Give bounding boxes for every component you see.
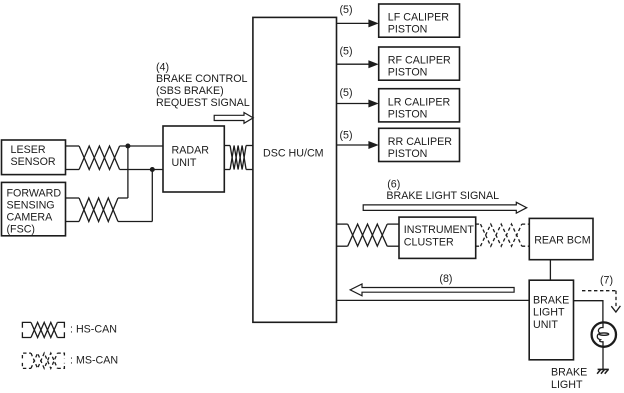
wire zigzag to cluster bottom stub: [387, 245, 399, 247]
svg-text:REAR BCM: REAR BCM: [534, 235, 591, 247]
twisted pair HS-CAN FSC line B: [79, 198, 118, 222]
arrow DSC to RF caliper: [337, 60, 379, 68]
twisted pair HS-CAN FSC line A: [79, 198, 118, 222]
twisted pair HS-CAN LESER SENSOR line B: [79, 146, 120, 170]
wire lamp to ground: [602, 346, 604, 369]
twisted pair MS-CAN cluster-rear BCM line B: [481, 224, 522, 246]
svg-text:(5): (5): [340, 87, 353, 99]
svg-text:PISTON: PISTON: [388, 67, 428, 79]
svg-text:LIGHT: LIGHT: [533, 307, 565, 319]
svg-text:RR CALIPER: RR CALIPER: [388, 136, 452, 148]
legend HS-CAN symbol: [22, 322, 64, 337]
arrow DSC to RR caliper: [337, 141, 379, 149]
wire vertical from junction 2 down to FSC bottom wire: [151, 170, 153, 222]
svg-text:CLUSTER: CLUSTER: [404, 237, 454, 249]
svg-text:(4): (4): [156, 62, 169, 74]
box LESER SENSOR: [2, 140, 66, 175]
svg-text:(SBS BRAKE): (SBS BRAKE): [156, 85, 224, 97]
svg-text:SENSING: SENSING: [7, 199, 55, 211]
wire DSC to instrument cluster bottom stub: [337, 245, 348, 247]
wire cluster to MS-CAN top stub (dashed): [476, 223, 481, 225]
wire vertical from junction 1 down to FSC top wire: [127, 146, 129, 198]
svg-text:REQUEST SIGNAL: REQUEST SIGNAL: [156, 97, 250, 109]
wire DSC to instrument cluster top stub: [337, 223, 348, 225]
wire FSC bottom to junction 2 vertical: [118, 221, 152, 223]
dashed wire (7) horizontal: [582, 290, 616, 292]
svg-text:(5): (5): [340, 129, 353, 141]
svg-text:BRAKE: BRAKE: [533, 294, 569, 306]
svg-text:CAMERA: CAMERA: [7, 212, 54, 224]
wire cluster to MS-CAN bottom stub (dashed): [476, 245, 481, 247]
svg-text:(8): (8): [439, 273, 452, 285]
dashed wire (7) vertical: [615, 291, 617, 307]
svg-text:PISTON: PISTON: [388, 24, 428, 36]
wire zigzag to DSC top stub: [246, 145, 253, 147]
svg-text:(5): (5): [340, 45, 353, 57]
wire FSC bottom stub: [66, 221, 80, 223]
hollow arrow (4) into DSC: [214, 113, 253, 124]
wire DSC to brake light unit: [337, 299, 530, 301]
svg-text:LESER: LESER: [11, 144, 46, 156]
svg-text:BRAKE LIGHT SIGNAL: BRAKE LIGHT SIGNAL: [386, 190, 499, 202]
arrow DSC to LF caliper: [337, 19, 379, 27]
box RF CALIPER PISTON: [379, 47, 460, 80]
svg-text:(FSC): (FSC): [7, 224, 36, 236]
lamp brake light bulb: [592, 322, 616, 347]
box RADAR UNIT: [163, 126, 224, 192]
twisted pair HS-CAN DSC-cluster line A: [348, 224, 388, 246]
svg-text:RADAR: RADAR: [172, 145, 210, 157]
box RR CALIPER PISTON: [379, 128, 460, 161]
svg-text:RF CALIPER: RF CALIPER: [388, 55, 451, 67]
wire FSC top stub: [66, 197, 80, 199]
wire FSC top to junction 1 vertical: [118, 197, 128, 199]
svg-text:(6): (6): [387, 179, 400, 191]
twisted pair HS-CAN DSC-cluster line B: [348, 224, 388, 246]
box LF CALIPER PISTON: [379, 4, 460, 37]
svg-text:INSTRUMENT: INSTRUMENT: [404, 224, 475, 236]
wire MS-CAN to rear BCM bottom stub (dashed): [522, 245, 530, 247]
wire RADAR UNIT to zigzag top stub: [224, 145, 230, 147]
wire zigzag to DSC bottom stub: [246, 169, 253, 171]
svg-text:SENSOR: SENSOR: [11, 156, 56, 168]
svg-text:LR CALIPER: LR CALIPER: [388, 96, 451, 108]
arrowhead (7) chevron down: [611, 306, 620, 312]
svg-text:: MS-CAN: : MS-CAN: [70, 354, 118, 366]
label BRAKE LIGHT: [551, 367, 587, 392]
hollow arrow (8) left: [350, 284, 514, 296]
wire LESER bottom to RADAR UNIT: [120, 169, 163, 171]
twisted pair MS-CAN cluster-rear BCM line A: [481, 224, 522, 246]
node junction dot 2: [150, 167, 155, 172]
box REAR BCM: [529, 218, 593, 259]
wire LESER SENSOR top stub: [66, 145, 80, 147]
node junction dot 1: [125, 144, 130, 149]
svg-text:BRAKE: BRAKE: [551, 367, 587, 379]
svg-text:LIGHT: LIGHT: [551, 379, 583, 391]
twisted pair HS-CAN LESER SENSOR line A: [79, 146, 120, 170]
twisted pair HS-CAN RADAR-DSC line B: [230, 146, 246, 170]
wire rear BCM down to brake light unit: [549, 260, 551, 281]
box INSTRUMENT CLUSTER: [399, 217, 476, 258]
wire LESER SENSOR bottom stub: [66, 169, 80, 171]
svg-text:FORWARD: FORWARD: [7, 187, 62, 199]
wire zigzag to cluster top stub: [387, 223, 399, 225]
label (4) brake control request signal: [156, 62, 250, 110]
wire brake light unit to lamp: [574, 301, 603, 323]
svg-text:: HS-CAN: : HS-CAN: [70, 324, 117, 336]
svg-text:PISTON: PISTON: [388, 148, 428, 160]
ground: [597, 369, 609, 373]
twisted pair HS-CAN RADAR-DSC line A: [230, 146, 246, 170]
legend MS-CAN symbol (dashed): [22, 353, 64, 368]
svg-text:LF CALIPER: LF CALIPER: [388, 12, 449, 24]
svg-text:(7): (7): [600, 275, 613, 287]
box DSC HU/CM: [253, 17, 337, 322]
svg-text:DSC HU/CM: DSC HU/CM: [263, 148, 324, 160]
wire LESER top to RADAR UNIT: [120, 145, 163, 147]
label (6) brake light signal: [386, 179, 499, 203]
wire RADAR UNIT to zigzag bottom stub: [224, 169, 230, 171]
wire MS-CAN to rear BCM top stub (dashed): [522, 223, 530, 225]
hollow arrow (6) right: [363, 202, 527, 213]
svg-text:UNIT: UNIT: [172, 157, 197, 169]
svg-text:BRAKE CONTROL: BRAKE CONTROL: [156, 73, 248, 85]
svg-text:(5): (5): [340, 4, 353, 16]
box FORWARD SENSING CAMERA (FSC): [2, 182, 66, 235]
box LR CALIPER PISTON: [379, 89, 460, 122]
arrow DSC to LR caliper: [337, 100, 379, 108]
box BRAKE LIGHT UNIT: [529, 280, 573, 360]
svg-text:UNIT: UNIT: [533, 319, 558, 331]
svg-text:PISTON: PISTON: [388, 108, 428, 120]
